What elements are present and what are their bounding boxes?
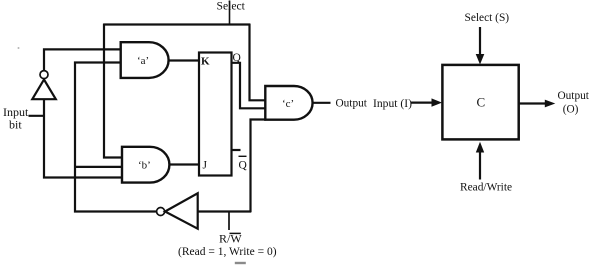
block C (442, 65, 518, 139)
wire: R/W-bar label stub (228, 212, 230, 231)
pin label Q-bar with overbar (239, 156, 248, 171)
AND gate 'a' (121, 42, 169, 78)
svg-text:Output: Output (336, 97, 368, 109)
svg-text:Select: Select (217, 0, 246, 12)
svg-text:J: J (203, 160, 208, 172)
AND gate 'b' (122, 147, 169, 183)
svg-text:Input (I): Input (I) (373, 97, 412, 110)
svg-text:Select (S): Select (S) (465, 12, 510, 24)
wire: read line (R/W-bar) up to gate c input 3 (251, 120, 267, 213)
svg-text:Q: Q (239, 160, 248, 172)
wire: select bus top horizontal (103, 23, 250, 25)
svg-text:C: C (477, 95, 486, 110)
label: Output (O) (558, 90, 590, 115)
wire: R/W-bar input to inverter (198, 210, 252, 212)
svg-text:Output: Output (558, 90, 590, 102)
svg-text:‘a’: ‘a’ (137, 55, 149, 67)
svg-text:bit: bit (9, 118, 22, 132)
wire: select right vertical into gate c (250, 24, 267, 101)
wire: select left vertical into gate b (104, 24, 122, 158)
inverter U1 input-bit NOT gate (32, 71, 56, 100)
svg-text:(Read = 1, Write = 0): (Read = 1, Write = 0) (178, 246, 277, 258)
label: R/W-bar (219, 232, 242, 246)
wire: inverter output up to gate a input 1 (44, 49, 121, 70)
svg-text:(O): (O) (563, 104, 579, 116)
wire: input arrow into block C (411, 98, 443, 106)
wire: select arrow into block C (476, 27, 485, 65)
wire: gate a output to K (169, 59, 200, 61)
wire: read/write arrow into block C bottom (476, 142, 484, 180)
svg-text:K: K (201, 55, 210, 67)
label: Input bit (3, 105, 29, 132)
wire: Q output to gate c input 2 (232, 63, 267, 109)
wire: write branch to gate b input 2 (74, 166, 123, 168)
inverter U3 read/write NOT gate (157, 193, 198, 228)
wire: write line (from read/write inverter) up to gate a input 2 (75, 63, 157, 212)
svg-text:Read/Write: Read/Write (460, 181, 512, 193)
latch box U2 (flip-flop) (199, 53, 232, 176)
svg-text:‘c’: ‘c’ (282, 98, 294, 110)
wire: gate b output to J (169, 163, 200, 165)
wire: output arrow from block C (519, 100, 555, 108)
wire: gate c output (312, 102, 331, 104)
wire: input bit down to gate b input 3 (44, 99, 123, 177)
AND gate 'c' (265, 86, 312, 120)
wire: Select lead-in (229, 1, 231, 26)
svg-text:‘b’: ‘b’ (138, 160, 151, 172)
wire: input bit lead (29, 115, 45, 117)
wire: Q-bar stub (232, 149, 241, 151)
